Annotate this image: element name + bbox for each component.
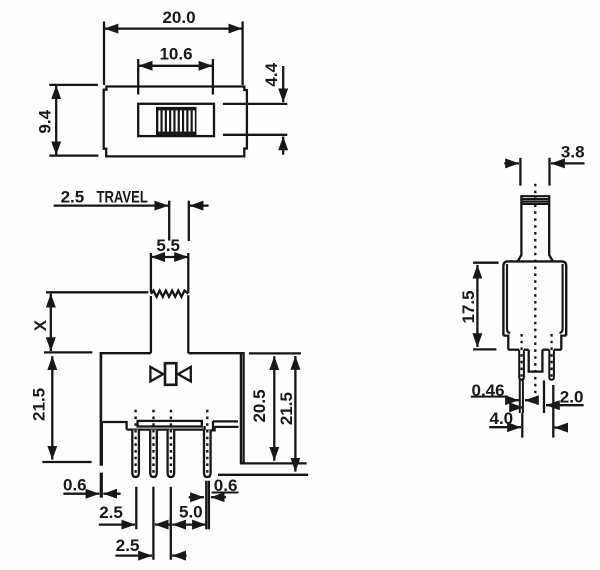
dimension 3.8: left arrow [504,162,519,164]
pin center extension line below [521,413,523,438]
dimension 5.0 (pin3-pin4): dimension line with arrows [172,523,206,525]
dimension 4.0: right arrow [554,426,566,428]
front view: bottom edge lower right [215,426,239,428]
dimension 2.0: left arrow [510,406,524,408]
dimension 0.6 left: tab extension mark [100,473,103,498]
front view: bottom step right [212,421,214,430]
front view: bottom edge upper-left [100,421,127,423]
dimension 3.8: right arrow [551,162,585,164]
front view: terminal pin 1 outline [132,430,139,477]
front view: terminal pin 4 outline [204,430,211,477]
shared extension line at body top (left) [44,351,92,353]
side view: vertical center line (dotted) [534,184,536,403]
svg-text:TRAVEL: TRAVEL [97,188,148,207]
side view: body lower-left step [503,336,508,350]
front view: actuator break zigzag [151,291,188,297]
dimension 4.4: leader lines from slot edges [223,103,287,105]
svg-text:X: X [31,319,50,331]
front view: base strip between pins [138,421,202,427]
front view: body right edge inner line [240,353,242,463]
front view: polarity symbol center rectangle [165,363,176,385]
side view: rear pin outline [549,350,554,380]
svg-text:20.5: 20.5 [250,389,269,422]
dimension X: top extension line [46,291,148,293]
svg-text:20.0: 20.0 [162,8,195,27]
side view: front pin center line (dashed) [520,334,522,379]
dimension 0.6 left: arrows onto tab [63,493,99,495]
dimension 0.6 right: label underline [212,492,239,494]
dimension 21.5 left: dimension line with arrows [51,356,53,459]
dimension 2.5 (pin2-pin3): arrows [115,554,152,556]
svg-text:21.5: 21.5 [29,388,48,421]
dimension 2.5 TRAVEL: left dimension line with arrow [54,204,169,206]
front view: body top edge [101,352,151,354]
svg-text:10.6: 10.6 [159,44,192,63]
dimension 2.5 TRAVEL: right dimension line with arrow [190,204,209,206]
front view: terminal pin 2 outline [150,430,157,477]
front view: pin 4 center line (dashed) [206,410,208,473]
svg-text:3.8: 3.8 [561,143,585,162]
dimension 0.46: label underline / tail [471,396,508,398]
dimension 10.6: dimension line with arrows [139,65,213,67]
svg-text:21.5: 21.5 [277,392,296,425]
front view: pin 1 center line (dashed) [134,410,136,473]
side view: front pin outline [519,350,524,380]
dimension 0.46: arrows onto pin [508,399,519,401]
dimension 2.0: extension line [543,380,545,413]
svg-text:5.0: 5.0 [179,502,203,521]
dimension 20.5: bottom extension line [240,462,307,464]
front view: bottom step left [125,421,127,430]
dimension 21.5 left: bottom extension line [42,461,91,463]
dimension 9.4: dimension line with arrows [55,85,57,155]
dimension 4.4: lower arrow [282,137,284,155]
side view: body lower-right step [561,336,566,350]
svg-text:17.5: 17.5 [459,290,478,323]
dimension 20.0: dimension line with arrows [105,27,243,29]
dimension 4.4: upper arrow [282,66,284,102]
dimension 9.4: extension lines [49,84,98,86]
front view: pin 3 center line (dashed) [170,410,172,473]
top view: slider knob (hatched) [156,107,197,135]
dimension 2.0: right arrow with label underline [546,404,584,406]
dimension 3.8: extension lines [519,158,521,186]
svg-text:2.0: 2.0 [560,387,584,406]
side view: body bottom edge segments [508,349,519,351]
svg-text:2.5: 2.5 [99,503,123,522]
front view: body right edge / right mounting tab [242,352,244,463]
front view: left mounting tab [100,422,103,466]
top view: switch body outline [104,87,247,157]
side view: rear pin center line (dashed) [550,334,552,379]
svg-text:4.4: 4.4 [262,62,281,86]
dimension 21.5 right: dimension line with arrows [294,356,296,472]
svg-text:2.5: 2.5 [116,536,140,555]
dimension 10.6: extension lines [137,59,139,95]
dimension 4.0: right extension line [552,385,554,438]
pin 2 extension line [152,487,154,560]
top view: slider slot [138,104,214,136]
front view: pin 2 center line (dashed) [152,410,154,473]
front view: right tab bottom [240,462,245,464]
svg-text:9.4: 9.4 [36,109,55,133]
dimension 0.6 right: arrows onto pin 4 extension [189,496,204,498]
side view: right inner edge line with hook [559,264,562,333]
pin 1 extension line [135,487,137,530]
side view: stem top serration band [521,196,550,204]
side view: body outline with rounded shoulders [503,261,566,335]
front view: actuator left side [150,253,152,293]
dimension 17.5: dimension line with arrows [476,265,478,347]
front view: actuator right side [187,253,189,293]
dimension 20.0: extension lines [103,22,105,86]
svg-text:0.6: 0.6 [63,475,87,494]
dimension 2.5 TRAVEL: extension lines [168,201,170,241]
front view: body left edge [100,352,103,422]
front view: pin 4 pocket [205,426,215,430]
front view: terminal pin 3 outline [168,430,175,477]
dimension 21.5 right: bottom extension line [218,474,308,476]
front view: bottom edge upper-right [213,420,238,422]
svg-text:2.5: 2.5 [61,187,85,206]
svg-text:4.0: 4.0 [490,409,514,428]
dimension X: dimension line with arrows [50,294,52,351]
pin 3 extension line [170,487,172,560]
side view: center bottom block [529,350,543,372]
dimension 17.5: extension lines [473,262,499,264]
front view: bottom edge lower (terminal area) [127,428,205,430]
dimension 5.5: dimension line with arrows [151,256,188,258]
front view: polarity symbol right triangle [178,367,191,382]
side view: left inner edge line with hook [507,264,510,333]
pin 4 extension lines (double) [205,481,207,530]
side view: actuator stem right side [549,195,553,261]
front view: polarity symbol left triangle [150,367,163,382]
dimension 2.5 (pin1-pin2): arrows [99,523,135,525]
side view: actuator stem left side [518,195,522,261]
shared extension line at body top (right) [249,352,301,354]
dimension 20.5: dimension line with arrows [273,356,275,460]
pin thickness extension lines (double) [519,378,521,413]
dimension 4.0: left arrow with label underline [489,426,521,428]
svg-text:5.5: 5.5 [156,236,180,255]
